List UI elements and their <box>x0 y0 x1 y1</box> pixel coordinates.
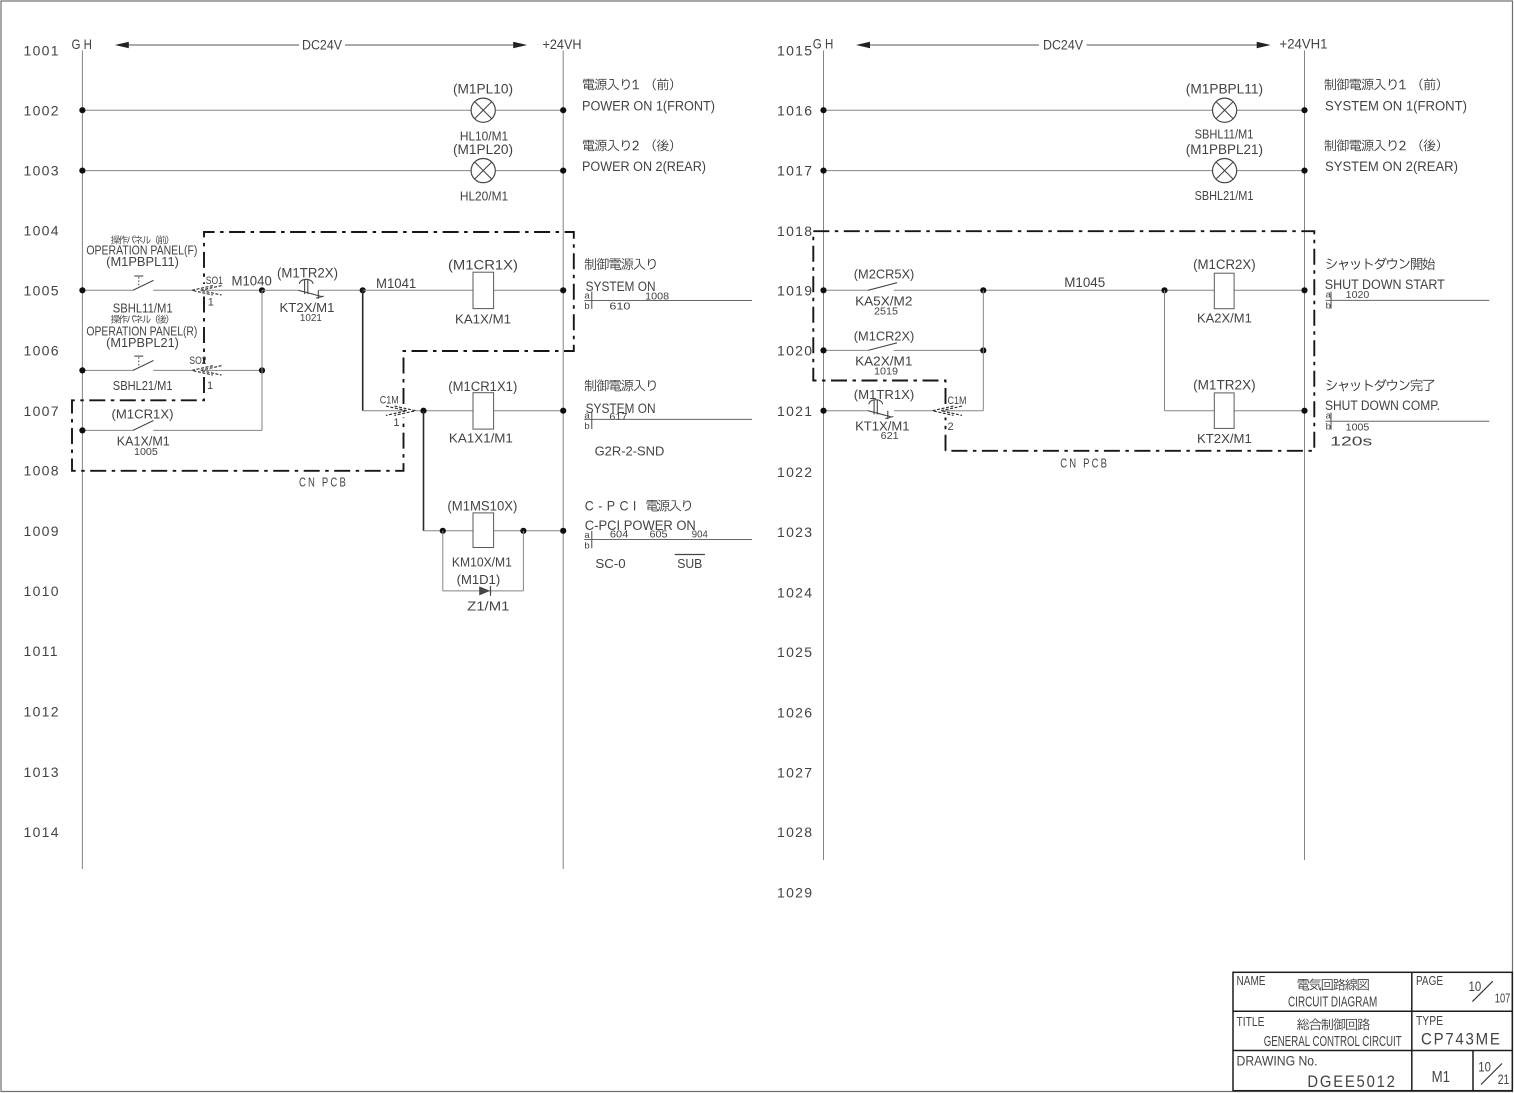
wire row 1007 holding contact <box>82 429 133 431</box>
svg-text:(M1D1): (M1D1) <box>457 573 501 587</box>
svg-text:1005: 1005 <box>134 447 158 458</box>
connector pin SO2 <box>192 366 213 375</box>
svg-text:b: b <box>1326 422 1331 433</box>
wire row 1016 <box>824 109 1305 111</box>
vertical wire M1045 branch <box>982 290 984 410</box>
svg-text:610: 610 <box>609 300 630 312</box>
svg-text:(M1CR2X): (M1CR2X) <box>854 329 915 343</box>
svg-text:SBHL11/M1: SBHL11/M1 <box>1195 128 1254 142</box>
right bus +24VH1 <box>1304 51 1306 861</box>
svg-text:SHUT DOWN START: SHUT DOWN START <box>1325 277 1445 292</box>
junction dots row 1002 <box>79 107 85 113</box>
svg-text:(M1PL20): (M1PL20) <box>453 142 513 157</box>
svg-text:SBHL11/M1: SBHL11/M1 <box>113 302 173 316</box>
svg-text:1014: 1014 <box>24 824 60 840</box>
svg-text:GENERAL CONTROL CIRCUIT: GENERAL CONTROL CIRCUIT <box>1264 1034 1402 1050</box>
right bus +24VH <box>562 51 564 870</box>
svg-text:1019: 1019 <box>777 283 813 299</box>
svg-text:KM10X/M1: KM10X/M1 <box>452 556 512 570</box>
svg-text:POWER ON 1(FRONT): POWER ON 1(FRONT) <box>582 98 715 113</box>
svg-text:1012: 1012 <box>24 704 60 720</box>
diode bypass branch Z1/M1 (M1D1) <box>442 531 444 591</box>
svg-text:1005: 1005 <box>24 283 60 299</box>
svg-text:1027: 1027 <box>777 765 813 781</box>
svg-text:1023: 1023 <box>777 524 813 540</box>
wire row 1009 <box>424 530 474 532</box>
svg-text:621: 621 <box>881 431 899 442</box>
svg-text:1021: 1021 <box>300 313 322 324</box>
svg-text:(M1CR2X): (M1CR2X) <box>1193 257 1256 272</box>
svg-text:(M1PBPL21): (M1PBPL21) <box>1186 142 1263 157</box>
svg-text:1011: 1011 <box>24 643 59 659</box>
svg-text:604: 604 <box>610 528 629 540</box>
left bus GH <box>81 51 83 870</box>
svg-text:b: b <box>584 301 589 312</box>
label 電源入り2（後） POWER ON 2(REAR) <box>583 140 594 151</box>
svg-text:2: 2 <box>948 421 954 433</box>
svg-text:SBHL21/M1: SBHL21/M1 <box>113 379 173 393</box>
junction dot row 1021 bus <box>820 408 826 414</box>
svg-text:M1045: M1045 <box>1064 275 1105 290</box>
svg-text:1019: 1019 <box>874 367 898 378</box>
svg-text:10: 10 <box>1478 1060 1491 1075</box>
svg-text:1: 1 <box>207 380 213 392</box>
label OPERATION PANEL(R) (M1PBPL21) <box>111 315 120 324</box>
wire timer to node M1041 <box>318 289 362 291</box>
svg-text:1010: 1010 <box>24 583 60 599</box>
svg-text:KT2X/M1: KT2X/M1 <box>1197 432 1252 446</box>
svg-text:1021: 1021 <box>777 403 813 419</box>
label 電源入り1（前） POWER ON 1(FRONT) <box>583 79 594 90</box>
svg-text:1020: 1020 <box>777 343 813 359</box>
svg-text:1025: 1025 <box>777 644 813 660</box>
diode Z1/M1 symbol <box>479 586 490 595</box>
svg-text:SYSTEM ON 1(FRONT): SYSTEM ON 1(FRONT) <box>1325 98 1467 113</box>
wire row 1006 <box>82 369 133 371</box>
wire coil to right bus row 1005 <box>494 289 564 291</box>
svg-text:1028: 1028 <box>777 824 813 840</box>
label 制御電源入り2（後） SYSTEM ON 2(REAR) <box>1325 139 1336 151</box>
svg-text:POWER ON 2(REAR): POWER ON 2(REAR) <box>582 159 706 174</box>
svg-text:1: 1 <box>393 417 399 429</box>
svg-text:1006: 1006 <box>24 342 60 358</box>
svg-text:KA2X/M1: KA2X/M1 <box>1197 312 1252 326</box>
row 1021 wire left <box>824 410 869 412</box>
label 制御電源入り SYSTEM ON row 1005 <box>585 258 596 270</box>
wire M1041 to coil <box>363 289 473 291</box>
svg-text:G2R-2-SND: G2R-2-SND <box>595 444 665 458</box>
wire row 1020 <box>824 349 869 351</box>
svg-text:1008: 1008 <box>24 462 60 478</box>
svg-text:1002: 1002 <box>24 102 60 118</box>
relay coil KA1X1/M1 (M1CR1X1) <box>473 393 494 429</box>
svg-text:1004: 1004 <box>24 223 60 239</box>
wire row 1021 right <box>1165 410 1215 412</box>
contactor coil KM10X/M1 (M1MS10X) <box>473 513 494 548</box>
svg-text:1026: 1026 <box>777 704 813 720</box>
svg-text:G H: G H <box>813 36 834 52</box>
svg-text:DRAWING No.: DRAWING No. <box>1237 1053 1318 1069</box>
junction dots row 1017 <box>820 168 826 174</box>
svg-text:b: b <box>584 540 589 551</box>
svg-text:(M1CR1X): (M1CR1X) <box>448 258 518 273</box>
svg-text:b: b <box>1326 301 1331 312</box>
svg-text:G H: G H <box>72 36 93 52</box>
svg-text:+24VH1: +24VH1 <box>1280 36 1328 52</box>
svg-text:SHUT DOWN COMP.: SHUT DOWN COMP. <box>1325 398 1440 413</box>
svg-text:C1M: C1M <box>948 395 967 407</box>
svg-text:DGEE5012: DGEE5012 <box>1307 1073 1396 1091</box>
connector pin SO1 <box>192 286 213 295</box>
junction dots row 1016 <box>820 107 826 113</box>
junction dots row 1006 <box>79 367 85 373</box>
wire C1M to M1045 branch <box>943 410 983 412</box>
svg-text:M1041: M1041 <box>376 276 416 291</box>
svg-text:1013: 1013 <box>24 764 60 780</box>
svg-text:M1: M1 <box>1432 1069 1450 1086</box>
svg-text:KA1X1/M1: KA1X1/M1 <box>449 432 513 446</box>
title block frame <box>1233 972 1512 1090</box>
svg-text:CN PCB: CN PCB <box>1060 456 1109 471</box>
svg-text:21: 21 <box>1498 1072 1510 1087</box>
svg-text:(M1TR1X): (M1TR1X) <box>854 388 915 402</box>
svg-text:1017: 1017 <box>777 163 813 179</box>
svg-text:(M1CR1X1): (M1CR1X1) <box>448 379 517 394</box>
svg-text:(M1TR2X): (M1TR2X) <box>277 266 338 281</box>
junction dots row 1020 <box>820 347 826 353</box>
junction dots row 1005 <box>79 287 85 293</box>
svg-text:107: 107 <box>1495 991 1511 1006</box>
svg-text:C-PCI: C-PCI <box>585 498 641 514</box>
svg-text:Z1/M1: Z1/M1 <box>467 600 509 614</box>
svg-text:1003: 1003 <box>24 163 60 179</box>
svg-text:SYSTEM ON 2(REAR): SYSTEM ON 2(REAR) <box>1325 159 1458 174</box>
relay contact KA1X/M1 <box>133 421 154 431</box>
svg-text:1001: 1001 <box>24 43 60 59</box>
junction dot row 1007 bus <box>79 427 85 433</box>
lamp SBHL11/M1 (M1PBPL11) <box>1213 98 1237 122</box>
svg-text:SUB: SUB <box>677 557 702 571</box>
svg-text:605: 605 <box>650 528 668 540</box>
svg-text:SO1: SO1 <box>206 275 223 287</box>
svg-text:1009: 1009 <box>24 523 60 539</box>
vertical wire M1040 branch <box>261 290 263 430</box>
pushbutton contact SBHL21/M1 <box>133 361 154 371</box>
junction dots row 1009 <box>440 528 446 534</box>
svg-text:b: b <box>584 421 589 432</box>
svg-text:(M1PBPL11): (M1PBPL11) <box>106 255 179 269</box>
vertical wire row1019 to KT2X coil <box>1164 290 1166 410</box>
label 制御電源入り SYSTEM ON row 1007 <box>585 380 596 392</box>
left page row number labels <box>24 43 60 840</box>
pushbutton contact SBHL11/M1 <box>133 280 154 290</box>
svg-text:a: a <box>584 290 590 301</box>
svg-text:2515: 2515 <box>874 307 898 318</box>
svg-text:1018: 1018 <box>777 223 813 239</box>
timer contact KT1X/M1 (M1TR1X) <box>868 411 892 417</box>
svg-text:1005: 1005 <box>1346 421 1370 433</box>
svg-text:10: 10 <box>1469 978 1482 994</box>
junction dot C1M node <box>420 408 426 414</box>
lamp HL10/M1 (M1PL10) <box>471 98 495 122</box>
wire row 1017 <box>824 170 1305 172</box>
svg-text:CIRCUIT DIAGRAM: CIRCUIT DIAGRAM <box>1288 995 1377 1011</box>
wire coil to right bus row 1007 <box>494 410 564 412</box>
feed wire C1M node down to row 1009 <box>423 411 425 531</box>
svg-text:1022: 1022 <box>777 464 813 480</box>
junction dots row 1003 <box>79 168 85 174</box>
svg-text:1: 1 <box>208 296 214 308</box>
svg-text:C1M: C1M <box>380 394 399 406</box>
DC24V range arrow right page <box>862 44 1039 46</box>
svg-text:(M2CR5X): (M2CR5X) <box>854 267 915 281</box>
svg-text:120s: 120s <box>1330 434 1372 448</box>
junction dots row 1019 <box>820 287 826 293</box>
svg-text:+24VH: +24VH <box>543 36 582 52</box>
svg-text:1024: 1024 <box>777 584 813 600</box>
svg-text:SO2: SO2 <box>189 355 206 367</box>
lamp SBHL21/M1 (M1PBPL21) <box>1213 159 1237 183</box>
svg-text:KA1X/M1: KA1X/M1 <box>455 313 511 327</box>
relay contact KA5X/M2 (M2CR5X) <box>868 283 897 291</box>
svg-text:(M1MS10X): (M1MS10X) <box>447 499 517 514</box>
svg-text:(M1CR1X): (M1CR1X) <box>112 408 174 422</box>
svg-text:(M1TR2X): (M1TR2X) <box>1193 378 1256 393</box>
feed wire row1005 to row1007 coil line <box>362 290 364 410</box>
wire M1040 to timer contact <box>262 289 299 291</box>
svg-text:(M1PBPL21): (M1PBPL21) <box>106 336 179 350</box>
wire row 1005 left segment <box>82 289 133 291</box>
DC24V range arrow left page <box>121 44 300 46</box>
left bus GH right page <box>823 51 825 861</box>
connector pin C1M left page <box>395 406 416 415</box>
svg-text:1029: 1029 <box>777 884 813 900</box>
svg-text:617: 617 <box>609 411 627 423</box>
timer contact KT2X/M1 (M1TR2X) <box>299 290 323 296</box>
svg-text:CN PCB: CN PCB <box>299 475 348 490</box>
wire SO1 to node M1040 <box>203 289 262 291</box>
wire C1M to coil KA1X1 <box>416 410 474 412</box>
svg-text:904: 904 <box>692 528 708 540</box>
wire row 1003 <box>82 170 563 172</box>
svg-text:C-PCI POWER ON: C-PCI POWER ON <box>585 518 696 533</box>
svg-text:M1040: M1040 <box>232 274 272 289</box>
label シャットダウン開始 SHUT DOWN START <box>1326 258 1337 269</box>
svg-text:TYPE: TYPE <box>1416 1013 1443 1028</box>
svg-text:(M1PBPL11): (M1PBPL11) <box>1186 81 1263 96</box>
svg-text:HL10/M1: HL10/M1 <box>460 129 508 143</box>
svg-text:PAGE: PAGE <box>1416 973 1443 988</box>
relay coil KA1X/M1 (M1CR1X) <box>473 272 494 308</box>
svg-text:NAME: NAME <box>1237 973 1266 988</box>
wire row 1002 <box>82 109 563 111</box>
svg-text:1016: 1016 <box>777 102 813 118</box>
svg-text:DC24V: DC24V <box>302 38 342 53</box>
label シャットダウン完了 SHUT DOWN COMP. <box>1326 380 1337 391</box>
svg-text:HL20/M1: HL20/M1 <box>460 190 508 204</box>
svg-text:DC24V: DC24V <box>1043 38 1083 53</box>
node M1041 <box>360 287 366 293</box>
CN PCB enclosure boundary left page <box>203 297 205 365</box>
CN PCB enclosure boundary right page <box>813 231 1314 451</box>
svg-text:1020: 1020 <box>1346 289 1370 301</box>
label OPERATION PANEL(F) (M1PBPL11) <box>111 235 120 244</box>
svg-text:1015: 1015 <box>777 43 813 59</box>
right page row number labels <box>777 43 813 901</box>
svg-text:CP743ME: CP743ME <box>1421 1029 1502 1048</box>
svg-text:SC-0: SC-0 <box>595 557 625 571</box>
label 制御電源入り1（前） SYSTEM ON 1(FRONT) <box>1325 78 1336 90</box>
svg-text:(M1PL10): (M1PL10) <box>453 81 513 96</box>
connector pin C1M right page <box>932 406 953 415</box>
svg-text:a: a <box>584 411 590 422</box>
relay coil KA2X/M1 (M1CR2X) <box>1214 273 1234 309</box>
svg-text:1007: 1007 <box>24 403 60 419</box>
relay contact KA2X/M1 (M1CR2X) row 1020 <box>868 343 897 351</box>
timer coil KT2X/M1 (M1TR2X) <box>1214 393 1234 429</box>
wire SO2 to vertical <box>203 369 262 371</box>
lamp HL20/M1 (M1PL20) <box>471 159 495 183</box>
svg-text:TITLE: TITLE <box>1237 1014 1265 1029</box>
svg-text:SBHL21/M1: SBHL21/M1 <box>1195 189 1254 203</box>
wire row 1019 segments <box>824 289 869 291</box>
